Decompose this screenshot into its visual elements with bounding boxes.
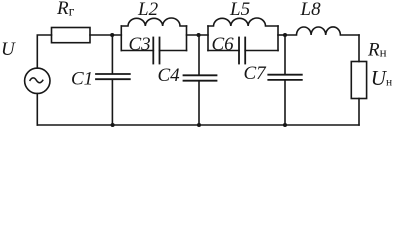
svg-text:C7: C7 bbox=[244, 63, 268, 84]
svg-text:L8: L8 bbox=[300, 0, 322, 20]
wire: tank1 left vertical bbox=[120, 26, 122, 51]
wire: L8 to load resistor bbox=[358, 35, 360, 62]
inductor L5 bbox=[208, 18, 278, 26]
node: C7 bottom junction bbox=[283, 123, 287, 127]
capacitor C4 bbox=[198, 35, 200, 74]
svg-text:C6: C6 bbox=[212, 34, 235, 55]
capacitor C7 bbox=[284, 35, 286, 74]
node: C1 bottom junction bbox=[111, 123, 115, 127]
node A bbox=[110, 33, 114, 37]
node: C4 bottom junction bbox=[197, 123, 201, 127]
svg-text:C4: C4 bbox=[158, 65, 181, 86]
wire: tank2 left vertical bbox=[207, 26, 209, 51]
capacitor C3 (in tank1 bottom branch) bbox=[121, 50, 153, 52]
capacitor C1 bbox=[111, 35, 113, 73]
wire: tank2 to L8 bbox=[278, 34, 285, 36]
wire: resistor to tank1 bbox=[90, 34, 121, 36]
wire: load resistor to bottom rail bbox=[358, 99, 360, 126]
node C bbox=[283, 33, 287, 37]
svg-text:L2: L2 bbox=[137, 0, 159, 20]
capacitor C6 (in tank2 bottom branch) bbox=[208, 50, 239, 52]
svg-text:C1: C1 bbox=[71, 69, 93, 90]
svg-text:U: U bbox=[1, 39, 16, 60]
resistor Rn (load) bbox=[351, 62, 366, 99]
AC source U (circle with tilde) bbox=[25, 68, 50, 93]
svg-text:L5: L5 bbox=[229, 0, 250, 20]
tilde inside source bbox=[30, 78, 43, 83]
wire: source top to resistor bbox=[37, 35, 51, 68]
wire: tank1 right vertical bbox=[186, 26, 188, 51]
inductor L8 bbox=[285, 27, 359, 35]
resistor Rg bbox=[52, 28, 91, 43]
node B bbox=[197, 33, 201, 37]
wire: source bottom to bottom rail bbox=[36, 94, 38, 126]
wire: bottom rail bbox=[37, 124, 359, 126]
svg-text:C3: C3 bbox=[129, 34, 151, 55]
inductor L2 bbox=[121, 18, 186, 26]
wire: tank2 right vertical bbox=[277, 26, 279, 51]
wire: tank1 to tank2 bbox=[187, 34, 209, 36]
